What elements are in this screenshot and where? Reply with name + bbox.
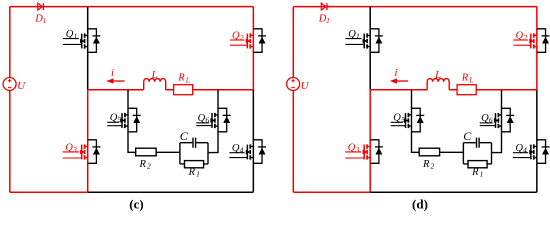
resistor R2 (d) [419, 148, 439, 170]
body diode of Q6 (c) [218, 108, 231, 132]
svg-text:2: 2 [147, 162, 151, 171]
body diode of Q4 (d) [537, 140, 550, 164]
svg-text:6: 6 [205, 116, 209, 125]
transistor Q5 (c) [107, 113, 128, 129]
svg-text:Q: Q [110, 113, 118, 124]
wire: right rail lower (through Q4) (d) [536, 90, 538, 192]
transistor Q4 (d) [513, 143, 537, 159]
svg-text:L: L [468, 75, 473, 84]
wire: bottom rail red part (d) [293, 191, 370, 193]
svg-text:4: 4 [523, 146, 527, 155]
body diode of Q2 (d) [537, 29, 550, 53]
transistor Q3 (c) [63, 142, 88, 159]
wire: mid load wire (c) [88, 89, 254, 91]
resistor R1 (c) [185, 161, 204, 179]
wire: Q6 leg with jog (c) [208, 90, 218, 153]
svg-text:Q: Q [66, 29, 74, 40]
wire: left rail (d) [292, 7, 294, 193]
svg-text:L: L [151, 70, 158, 81]
capacitor C (d) [463, 129, 479, 148]
voltage source U (c) [3, 78, 26, 92]
svg-text:i: i [111, 68, 114, 79]
wire: right rail upper (through Q2) (c) [252, 7, 254, 90]
wire: Q6 leg with jog (d) [492, 90, 502, 153]
svg-text:2: 2 [523, 33, 527, 42]
svg-text:R: R [177, 73, 185, 84]
current arrow i (c) [106, 68, 124, 84]
svg-text:R: R [471, 167, 479, 178]
transistor Q2 (c) [230, 30, 254, 48]
body diode of Q5 (c) [128, 108, 141, 132]
current arrow i (d) [390, 68, 408, 84]
svg-text:Q: Q [516, 30, 524, 41]
wire: Q5 leg (c) [128, 90, 180, 153]
svg-text:1: 1 [43, 16, 47, 25]
transistor Q2 (d) [513, 30, 537, 48]
svg-text:Q: Q [65, 142, 73, 153]
body diode of Q3 (d) [370, 140, 383, 164]
transistor Q6 (d) [480, 113, 502, 128]
svg-text:1: 1 [356, 32, 360, 41]
wire: snubber block frame (c) [180, 143, 208, 164]
body diode of Q2 (c) [253, 29, 266, 53]
svg-text:3: 3 [72, 145, 77, 154]
svg-text:Q: Q [348, 142, 356, 153]
wire: bottom rail black part (d) [370, 191, 537, 193]
wire: top rail (c) [10, 6, 254, 8]
svg-text:C: C [463, 129, 472, 143]
svg-text:R: R [139, 159, 147, 170]
transistor Q4 (c) [229, 143, 253, 159]
wire: snubber block frame (d) [463, 143, 491, 164]
transistor Q6 (c) [196, 113, 218, 128]
wire: node A leg through Q3 (d) [369, 90, 371, 192]
svg-text:Q: Q [348, 29, 356, 40]
svg-text:4: 4 [240, 146, 244, 155]
inductor L (d) [427, 70, 449, 90]
svg-text:2: 2 [431, 162, 435, 171]
svg-text:5: 5 [401, 115, 405, 124]
wire: right rail upper (through Q2) (d) [536, 7, 538, 90]
svg-text:Q: Q [232, 30, 240, 41]
svg-text:1: 1 [196, 170, 200, 179]
svg-text:2: 2 [240, 33, 244, 42]
svg-text:1: 1 [74, 32, 78, 41]
wire: top rail (d) [293, 6, 537, 8]
diode D1 (d) [318, 3, 330, 25]
wire: Q1 drain leg (d) [369, 7, 371, 90]
capacitor C (c) [180, 129, 196, 148]
transistor Q1 (c) [63, 29, 88, 49]
body diode of Q5 (d) [412, 108, 425, 132]
body diode of Q6 (d) [502, 108, 515, 132]
resistor R1 (d) [468, 161, 487, 179]
svg-text:1: 1 [326, 16, 330, 25]
transistor Q3 (d) [345, 142, 370, 159]
transistor Q1 (d) [345, 29, 370, 49]
svg-text:R: R [188, 167, 196, 178]
svg-text:1: 1 [480, 170, 484, 179]
resistor RL (c) [174, 73, 193, 95]
wire: node A leg through Q3 (c) [87, 90, 89, 192]
wire: Q1 drain leg (c) [87, 7, 89, 90]
wire: left rail (c) [9, 7, 11, 193]
inductor L (c) [144, 70, 166, 90]
wire: right rail lower (through Q4) (c) [252, 90, 254, 192]
resistor RL (d) [457, 73, 476, 95]
wire: Q5 leg (d) [412, 90, 464, 153]
svg-text:3: 3 [355, 145, 360, 154]
svg-text:(c): (c) [129, 197, 143, 212]
svg-text:R: R [422, 159, 430, 170]
diode D1 (c) [34, 3, 46, 25]
wire: mid load wire (d) [370, 89, 537, 91]
svg-text:R: R [461, 73, 469, 84]
body diode of Q1 (d) [370, 29, 383, 53]
svg-text:U: U [17, 80, 26, 92]
svg-text:(d): (d) [412, 197, 428, 212]
transistor Q5 (d) [391, 113, 412, 129]
body diode of Q4 (c) [253, 140, 266, 164]
svg-text:U: U [301, 80, 310, 92]
wire: bottom rail red part (c) [10, 191, 88, 193]
body diode of Q1 (c) [88, 29, 101, 53]
resistor R2 (c) [136, 148, 156, 170]
svg-text:L: L [185, 75, 190, 84]
svg-text:Q: Q [393, 113, 401, 124]
body diode of Q3 (c) [88, 140, 101, 164]
svg-text:L: L [434, 70, 441, 81]
svg-text:5: 5 [118, 115, 122, 124]
svg-text:6: 6 [489, 116, 493, 125]
svg-text:i: i [395, 68, 398, 79]
svg-text:C: C [180, 129, 189, 143]
voltage source U (d) [287, 78, 310, 92]
wire: bottom rail black part (c) [88, 191, 254, 193]
